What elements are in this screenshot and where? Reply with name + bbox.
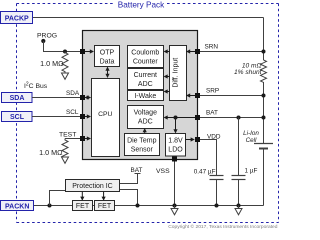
wire right bus lower: [263, 82, 265, 144]
capacitor 0.47 uF: [210, 175, 224, 177]
wire BAT: [200, 117, 264, 119]
svg-text:VSS: VSS: [156, 168, 170, 175]
wire PACKN to Protection IC: [50, 191, 66, 206]
svg-text:TEST: TEST: [59, 132, 76, 139]
svg-text:1 µF: 1 µF: [245, 168, 258, 175]
ground (PROG): [62, 73, 69, 79]
bottom rail wire: [34, 205, 264, 207]
svg-text:Sensor: Sensor: [131, 147, 154, 154]
svg-text:I-Wake: I-Wake: [134, 93, 156, 100]
node BAT/1uF junction: [237, 116, 241, 120]
node BAT/bus junction: [262, 116, 266, 120]
PACKN terminal: [1, 201, 34, 211]
svg-text:Copyright © 2017, Texas Instru: Copyright © 2017, Texas Instruments Inco…: [168, 223, 278, 230]
node BAT/LDO branch: [174, 116, 178, 120]
PACKP terminal: [1, 12, 33, 24]
pin PROG: [80, 49, 85, 54]
svg-text:0.47 µF: 0.47 µF: [194, 169, 216, 176]
arrows Protection IC to FETs: [81, 192, 83, 198]
block Coulomb Counter: [128, 46, 164, 68]
wire OTP-CPU double arrow: [107, 68, 109, 78]
wire Diff.Input to Coulomb Counter: [167, 51, 170, 53]
svg-text:VDD: VDD: [207, 133, 221, 140]
svg-text:BAT: BAT: [131, 167, 143, 174]
pin TEST: [80, 136, 85, 141]
wire SRN pin to Diff.Input: [190, 51, 198, 53]
wire PROG to chip: [44, 41, 83, 52]
svg-text:FET: FET: [76, 203, 90, 210]
svg-text:LDO: LDO: [168, 147, 183, 154]
svg-text:SDA: SDA: [10, 95, 25, 102]
wire TEST-CPU arrow: [85, 138, 91, 140]
node rail/0.47uF: [215, 204, 219, 208]
block I-Wake: [128, 91, 164, 101]
svg-text:Data: Data: [100, 59, 115, 66]
pin BAT: [195, 115, 200, 120]
wire SRN: [200, 51, 264, 53]
wire Die Temp to Voltage ADC arrow: [144, 131, 146, 134]
pin VSS: [172, 157, 177, 162]
ground (VSS): [174, 206, 176, 209]
svg-text:1% shunt: 1% shunt: [234, 69, 263, 76]
svg-text:Battery Pack: Battery Pack: [118, 0, 165, 9]
wire SDA-CPU double arrow: [85, 97, 91, 99]
svg-text:SRN: SRN: [205, 44, 219, 51]
svg-text:Protection IC: Protection IC: [72, 183, 112, 190]
svg-text:Counter: Counter: [133, 59, 159, 66]
pin VDD: [195, 137, 200, 142]
block Die Temp Sensor: [125, 134, 160, 156]
svg-text:CPU: CPU: [98, 111, 112, 118]
block Current ADC: [128, 69, 164, 90]
block Protection IC: [66, 180, 120, 192]
block Voltage ADC: [128, 106, 164, 129]
svg-text:ADC: ADC: [138, 119, 153, 126]
svg-text:PACKP: PACKP: [5, 16, 29, 23]
wire SCL-CPU arrow: [85, 116, 91, 118]
SDA terminal: [2, 93, 33, 103]
wire SCL: [32, 116, 83, 118]
IC fuel gauge body: [83, 31, 198, 160]
SCL terminal: [2, 112, 33, 122]
svg-text:1.0 MΩ: 1.0 MΩ: [40, 59, 64, 68]
svg-text:Voltage: Voltage: [134, 110, 157, 117]
block 1.8V LDO: [166, 134, 186, 157]
ground (TEST): [62, 157, 69, 163]
battery pack dashed boundary: [17, 4, 279, 223]
svg-text:Li-Ion: Li-Ion: [243, 130, 259, 137]
wire TEST: [65, 138, 83, 140]
wire LDO to VDD pin arrow: [186, 139, 192, 141]
svg-text:OTP: OTP: [100, 50, 115, 57]
node PROG/resistor junction: [63, 50, 67, 54]
svg-text:Current: Current: [134, 72, 157, 79]
wire SRP pin to Diff.Input: [190, 95, 198, 97]
ground (1uF / cell): [238, 206, 240, 209]
wire VDD: [200, 140, 217, 176]
svg-text:1.8V: 1.8V: [168, 138, 183, 145]
node SRP/bus junction: [262, 94, 266, 98]
wire PACKP top rail: [33, 17, 264, 19]
node rail/VSS: [173, 204, 177, 208]
pin SCL: [80, 114, 85, 119]
svg-text:SRP: SRP: [206, 87, 219, 94]
pin SRP: [195, 93, 200, 98]
pin SRN: [195, 49, 200, 54]
transistor FET 1: [73, 201, 93, 211]
block OTP Data: [95, 46, 120, 67]
block Diff. Input: [170, 46, 187, 101]
svg-text:PACKN: PACKN: [5, 204, 29, 211]
wire SDA: [32, 97, 83, 99]
wire BAT pin to Voltage ADC: [167, 117, 198, 119]
wire OTP arrow: [83, 51, 91, 53]
wire Protection IC to BAT tap: [120, 174, 141, 184]
svg-text:SCL: SCL: [10, 114, 25, 121]
svg-text:PROG: PROG: [37, 33, 57, 40]
svg-text:1.0 MΩ: 1.0 MΩ: [39, 148, 63, 157]
wire VSS from pin: [174, 162, 176, 206]
wire SRP: [200, 95, 264, 97]
node rail/Protection IC junction: [136, 204, 140, 208]
node PACKN junction: [48, 204, 52, 208]
resistor R 1.0 MOhm (TEST): [62, 139, 68, 159]
svg-text:Diff. Input: Diff. Input: [173, 58, 180, 88]
svg-text:Coulomb: Coulomb: [131, 50, 159, 57]
resistor R 1.0 MOhm (PROG): [62, 52, 68, 74]
wire Protection IC to rail: [120, 190, 138, 206]
svg-text:BAT: BAT: [206, 110, 218, 117]
transistor FET 2: [95, 201, 115, 211]
wire Diff.Input to I-Wake: [167, 91, 170, 93]
svg-text:FET: FET: [98, 203, 112, 210]
wire right bus upper: [263, 18, 265, 61]
resistor 10 mOhm shunt: [261, 60, 267, 82]
node SRN/bus junction: [262, 50, 266, 54]
block CPU: [92, 79, 120, 157]
svg-text:SCL: SCL: [66, 109, 79, 116]
capacitor 1 uF: [238, 118, 240, 176]
svg-text:ADC: ADC: [138, 81, 153, 88]
svg-text:SDA: SDA: [66, 90, 80, 97]
wire branch to 1.8V LDO: [175, 118, 177, 131]
wire Diff.Input to Current ADC: [167, 76, 170, 78]
pin SDA: [80, 95, 85, 100]
svg-text:Die Temp: Die Temp: [127, 138, 157, 145]
node rail/1uF: [237, 204, 241, 208]
